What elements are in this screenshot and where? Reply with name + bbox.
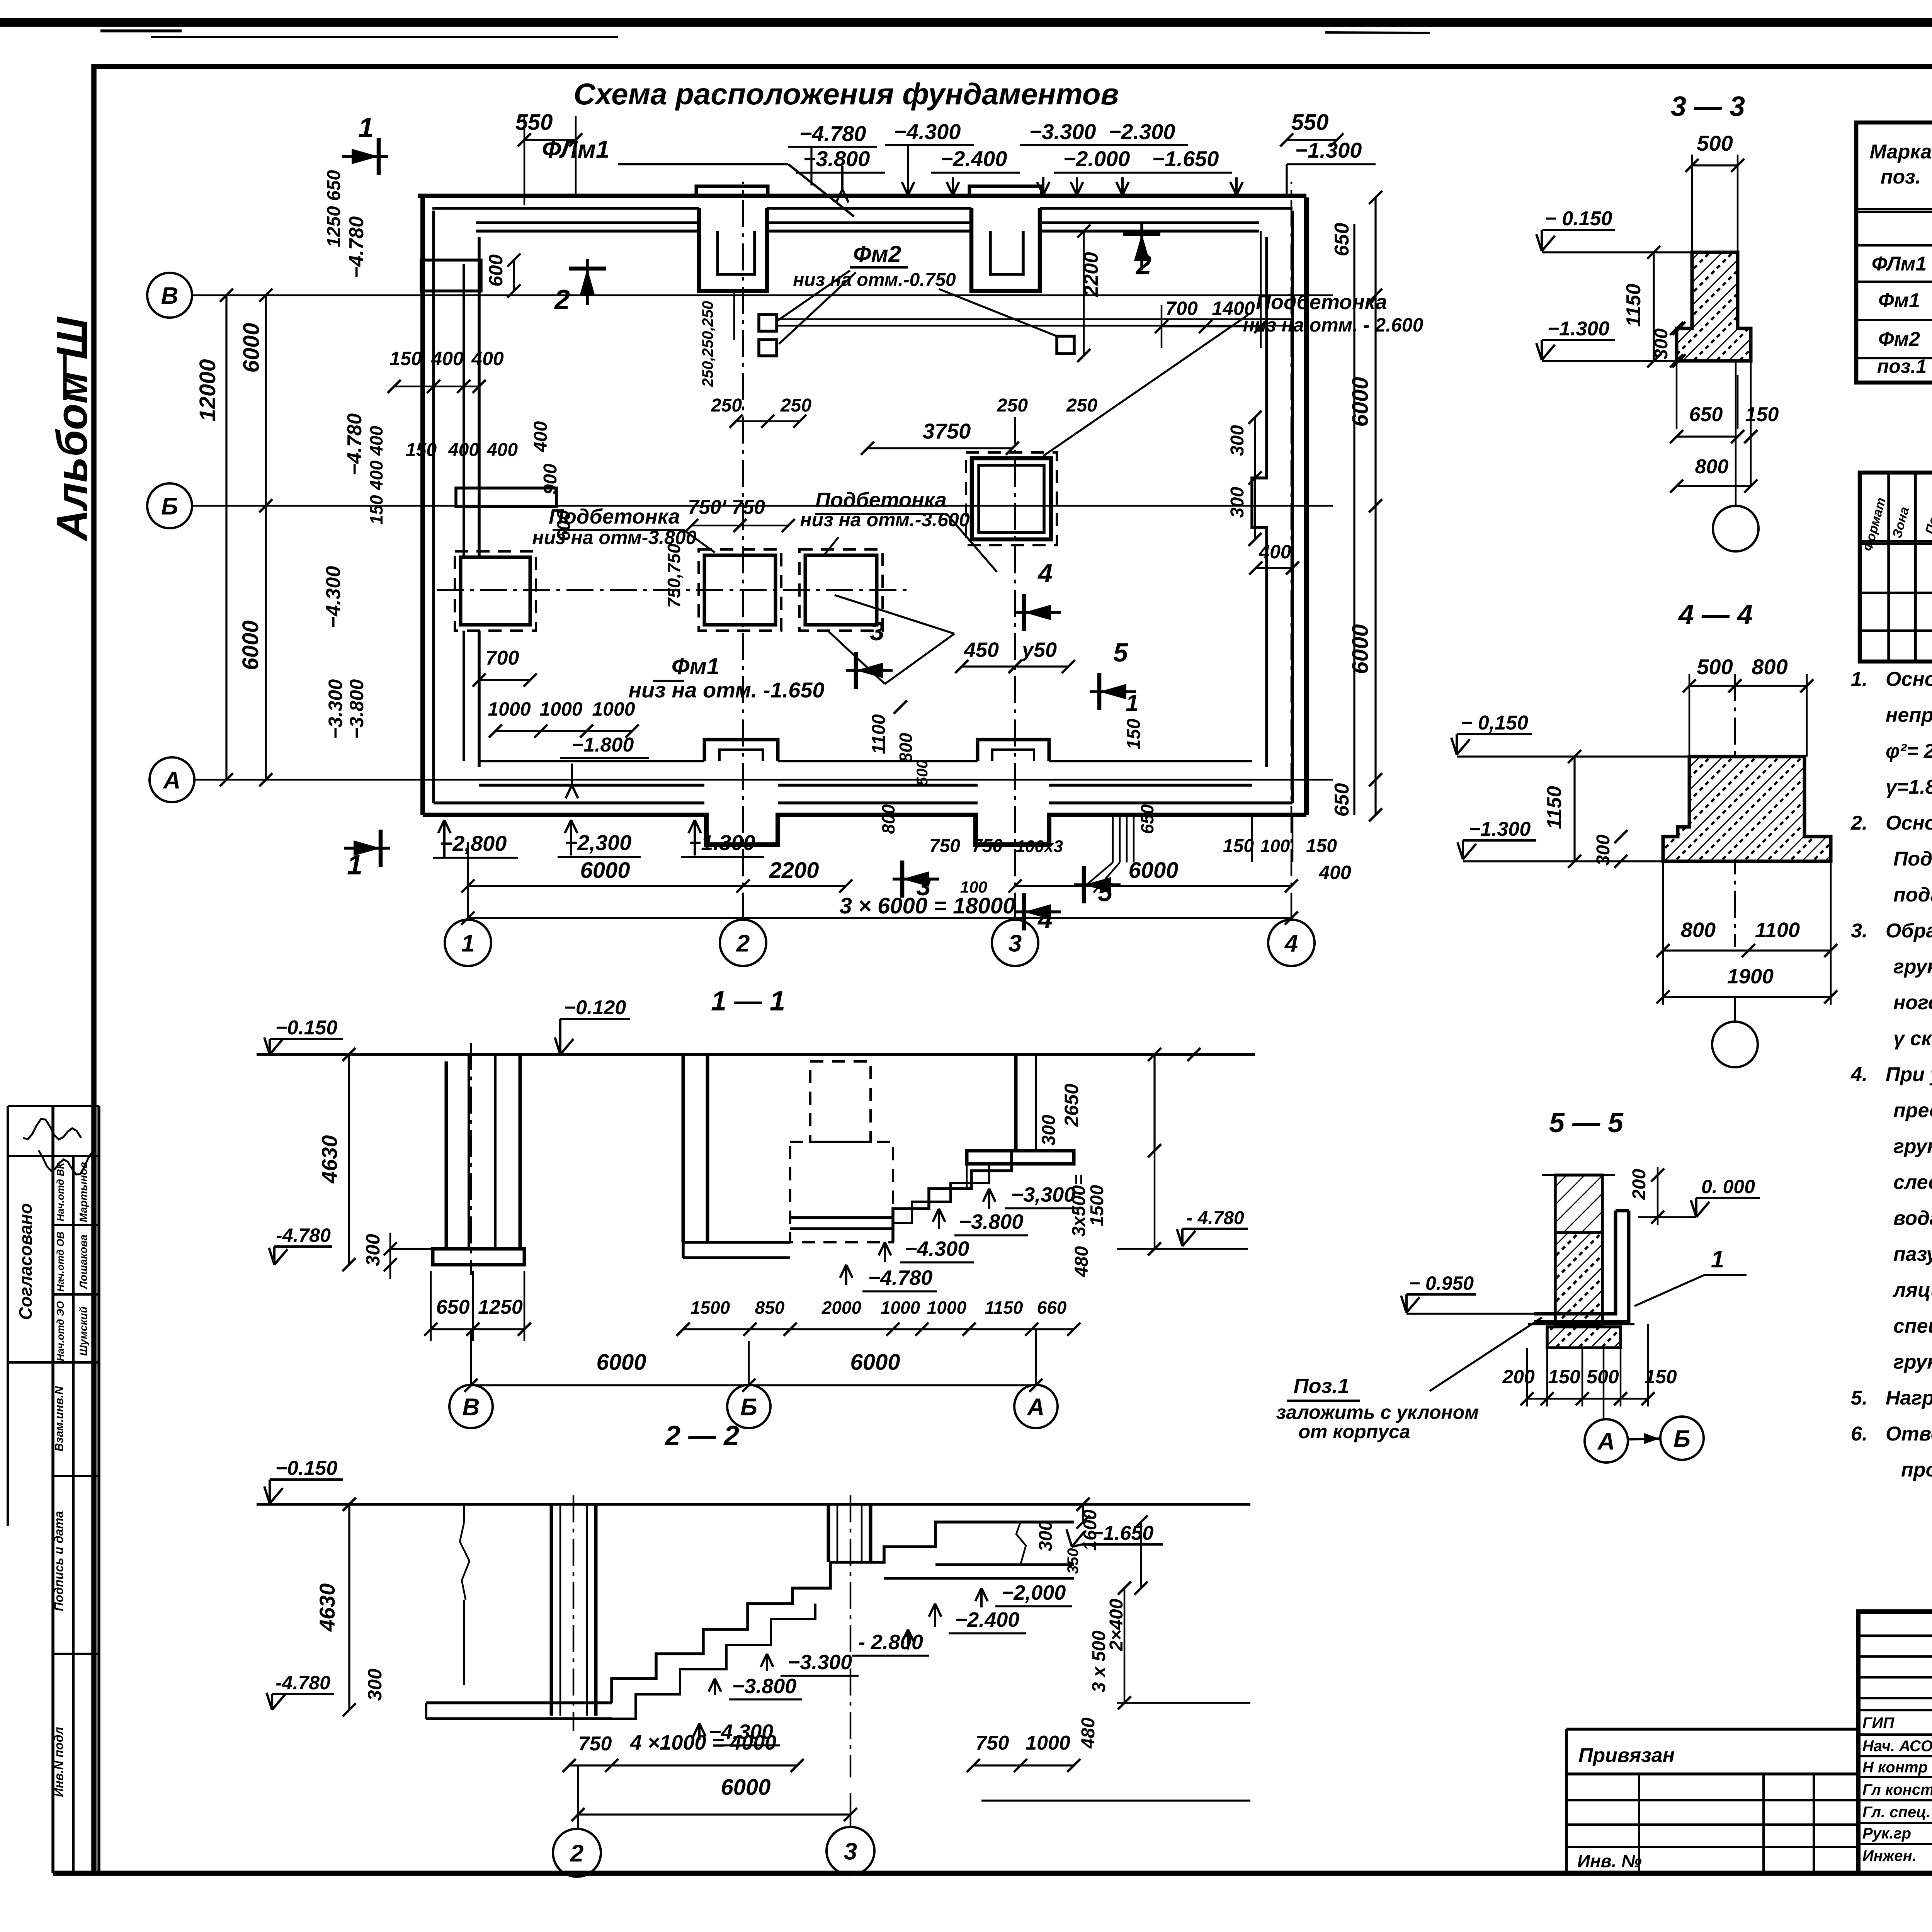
- svg-text:450: 450: [964, 638, 999, 662]
- svg-text:4: 4: [1037, 905, 1053, 934]
- section 3-3 hatched body: [1677, 252, 1751, 361]
- svg-text:ФЛм1: ФЛм1: [1872, 253, 1927, 275]
- svg-text:3х500=: 3х500=: [1069, 1174, 1089, 1237]
- svg-text:150: 150: [389, 348, 422, 369]
- svg-text:250: 250: [780, 395, 811, 416]
- svg-text:специальные добавки, понижаю: специальные добавки, понижающие температ…: [1893, 1315, 1932, 1337]
- axis 2 vertical dashdot: [742, 182, 744, 920]
- svg-text:3: 3: [916, 872, 931, 901]
- section 5-5 bottom ext lines: [1526, 1348, 1528, 1406]
- section 1-1 wall at B: [445, 1061, 448, 1249]
- svg-text:Гл конст: Гл конст: [1862, 1781, 1932, 1798]
- svg-text:ФЛм1: ФЛм1: [542, 135, 609, 163]
- svg-text:−1.300: −1.300: [1469, 818, 1531, 840]
- svg-text:Гл. спец.: Гл. спец.: [1862, 1804, 1930, 1821]
- section 2-2 squiggle break: [460, 1522, 469, 1600]
- svg-text:660: 660: [1037, 1298, 1067, 1318]
- column Fm1 right: [805, 555, 877, 625]
- plan left wall lines: [420, 197, 425, 815]
- svg-text:−4.780: −4.780: [799, 121, 866, 146]
- svg-text:1250 650: 1250 650: [324, 170, 344, 248]
- section 5-5 wall lower: [1555, 1233, 1602, 1324]
- svg-text:100: 100: [1260, 836, 1290, 856]
- svg-text:−2.400: −2.400: [940, 146, 1007, 171]
- svg-text:− 0.150: − 0.150: [1545, 207, 1612, 230]
- axis circle 3: [992, 920, 1038, 966]
- svg-text:низ на отм. - 2.600: низ на отм. - 2.600: [1243, 314, 1423, 336]
- svg-text:Основанием фундаментов служа: Основанием фундаментов служат грунты неп…: [1886, 668, 1932, 690]
- column centerline horizontal: [437, 589, 908, 591]
- svg-text:−2,800: −2,800: [440, 831, 507, 855]
- svg-text:Основание под фундаменты ФЛ: Основание под фундаменты ФЛм1, Фм2 утрам…: [1886, 812, 1932, 834]
- svg-text:Подбетонка: Подбетонка: [1256, 291, 1387, 314]
- svg-text:1000: 1000: [881, 1298, 920, 1318]
- svg-text:Фм2: Фм2: [1878, 328, 1920, 350]
- svg-text:−1.300: −1.300: [1295, 138, 1362, 162]
- svg-text:−0.120: −0.120: [564, 997, 626, 1019]
- section mark 5 bottom: [1074, 883, 1121, 886]
- svg-text:400: 400: [471, 348, 504, 369]
- svg-text:водами , своевременно произ: водами , своевременно производить засыпк…: [1893, 1207, 1932, 1230]
- svg-text:−3.800: −3.800: [346, 679, 367, 739]
- svg-text:200: 200: [1502, 1366, 1535, 1388]
- svg-text:грунтом без включения строит: грунтом без включения строительного мусо…: [1893, 956, 1932, 978]
- section 1-1 top line: [257, 1053, 1255, 1056]
- svg-text:750' 750: 750' 750: [688, 496, 765, 519]
- svg-text:3750: 3750: [923, 419, 971, 443]
- scan top edge line: [0, 18, 1932, 27]
- svg-text:φ²= 28°, сⁿ= 2кПа (0.02 кгс/с: φ²= 28°, сⁿ= 2кПа (0.02 кгс/см²) Е = 14.…: [1886, 740, 1932, 762]
- svg-text:γ скелета грунта ≳ 1.6 т/м³: γ скелета грунта ≳ 1.6 т/м³: [1893, 1027, 1932, 1050]
- svg-text:6000: 6000: [239, 323, 264, 372]
- svg-text:800: 800: [878, 804, 898, 834]
- svg-text:ляционными материалами, вв: ляционными материалами, вводить в грунт …: [1892, 1279, 1932, 1301]
- axis circle Б: [147, 483, 192, 528]
- axis circle A: [150, 757, 194, 802]
- svg-text:Подбетонка: Подбетонка: [815, 488, 947, 512]
- svg-text:250: 250: [997, 395, 1028, 416]
- svg-text:Подбетонка: Подбетонка: [549, 505, 680, 528]
- section 2-2 podgotovka strip: [426, 1701, 612, 1704]
- svg-text:Поз.1: Поз.1: [1294, 1374, 1349, 1398]
- svg-text:1000: 1000: [1026, 1732, 1070, 1754]
- column Fm1 at axis 1: [461, 557, 530, 625]
- svg-text:грунта: грунта: [1893, 1351, 1932, 1373]
- svg-text:150 400 400: 150 400 400: [366, 426, 386, 525]
- pривязан box: [1565, 1729, 1568, 1873]
- svg-text:проекта .: проекта .: [1901, 1459, 1932, 1481]
- svg-text:100: 100: [960, 878, 987, 896]
- fan lines 100x3: [1112, 815, 1114, 862]
- svg-text:поз.1: поз.1: [1877, 355, 1927, 377]
- plan bottom pilaster 1: [704, 740, 778, 761]
- svg-text:5: 5: [1098, 878, 1113, 907]
- pit at axis 3: [972, 458, 1051, 539]
- axis circle B: [147, 273, 192, 318]
- svg-text:4 — 4: 4 — 4: [1678, 599, 1753, 630]
- svg-text:800: 800: [1681, 918, 1716, 942]
- svg-text:непросадочные со следующими: непросадочные со следующими характеристи…: [1886, 704, 1932, 726]
- svg-text:700: 700: [1165, 298, 1198, 319]
- plan top wall inner lines: [476, 221, 699, 224]
- section 5-5 footing: [1547, 1327, 1621, 1348]
- svg-text:400: 400: [531, 421, 551, 452]
- svg-text:А: А: [1597, 1428, 1615, 1455]
- section mark 1 bottom-left: [344, 847, 390, 850]
- svg-text:Н контр: Н контр: [1862, 1759, 1928, 1776]
- svg-text:400: 400: [1318, 862, 1351, 883]
- svg-text:300: 300: [1651, 328, 1672, 359]
- svg-text:−4.300: −4.300: [905, 1237, 969, 1260]
- section mark 2 top: [586, 259, 589, 305]
- svg-text:−2.000: −2.000: [1063, 146, 1130, 171]
- section mark 2 right: [1140, 224, 1143, 270]
- svg-text:2: 2: [1135, 250, 1151, 281]
- svg-text:1: 1: [461, 930, 474, 957]
- svg-text:−2.400: −2.400: [955, 1608, 1020, 1631]
- section 5-5 wall top break: [1542, 1174, 1615, 1176]
- section 3-3 circle: [1735, 361, 1737, 506]
- title block name rows: [1858, 1733, 1932, 1736]
- svg-text:5: 5: [1113, 638, 1128, 667]
- plan bottom wall outer line: [423, 815, 1306, 845]
- svg-text:700: 700: [486, 647, 519, 669]
- svg-text:150: 150: [1223, 836, 1254, 856]
- svg-text:650: 650: [1689, 403, 1723, 426]
- svg-text:1400: 1400: [1212, 298, 1255, 319]
- svg-text:750: 750: [972, 836, 1003, 856]
- svg-text:низ на отм.-0.750: низ на отм.-0.750: [793, 270, 956, 290]
- svg-text:заложить с уклоном: заложить с уклоном: [1276, 1401, 1479, 1423]
- svg-text:1.: 1.: [1851, 668, 1867, 690]
- svg-text:1000: 1000: [488, 698, 531, 720]
- svg-text:12000: 12000: [195, 359, 220, 421]
- section mark 4 bottom: [1014, 910, 1061, 913]
- axis 4 vertical: [1291, 182, 1293, 920]
- axis line A: [194, 779, 1333, 781]
- plan right wall lines: [1304, 197, 1309, 815]
- section mark 5 interior: [1090, 690, 1136, 693]
- plan bottom dim row 2: [468, 917, 1291, 919]
- svg-text:150: 150: [1645, 1366, 1677, 1388]
- section 2-2 top line: [257, 1503, 1250, 1506]
- section 2-2 wall at axis 3: [827, 1504, 830, 1562]
- svg-text:При устройстве фундаментов: При устройстве фундаментов в зимний пери…: [1886, 1063, 1932, 1086]
- svg-text:3: 3: [844, 1838, 857, 1865]
- svg-text:3: 3: [1009, 930, 1022, 957]
- plan left wall footing at Б: [456, 488, 556, 507]
- svg-text:300: 300: [1593, 835, 1614, 866]
- svg-text:1250: 1250: [478, 1296, 523, 1318]
- svg-text:−1.300: −1.300: [1548, 318, 1610, 340]
- svg-text:750: 750: [578, 1733, 612, 1755]
- svg-text:−2.300: −2.300: [1109, 119, 1175, 144]
- svg-text:1100: 1100: [1755, 918, 1800, 942]
- svg-text:6000: 6000: [580, 858, 630, 883]
- svg-text:4.: 4.: [1850, 1063, 1867, 1086]
- thin lines from niche to Fm2 row: [733, 291, 735, 340]
- svg-text:650: 650: [1137, 804, 1157, 834]
- svg-text:поз.: поз.: [1881, 166, 1921, 188]
- column Fm1 middle: [704, 555, 776, 625]
- svg-text:ГИП: ГИП: [1862, 1714, 1895, 1731]
- section 1-1 wall at Б: [682, 1054, 685, 1242]
- svg-text:Б: Б: [1673, 1425, 1690, 1452]
- section 5-5 angle bracket: [1534, 1211, 1616, 1314]
- section 4-4 hatched body: [1663, 757, 1831, 861]
- svg-text:грунтов под подошвой фундам: грунтов под подошвой фундаментов основан…: [1893, 1135, 1932, 1158]
- svg-text:1: 1: [358, 112, 374, 143]
- svg-text:−3,300: −3,300: [1011, 1183, 1076, 1206]
- svg-text:750: 750: [976, 1732, 1009, 1754]
- svg-text:Нач. АСО: Нач. АСО: [1862, 1738, 1932, 1755]
- section 1-1 steps: [893, 1151, 1012, 1242]
- svg-text:−1.300: −1.300: [689, 830, 755, 855]
- plan niche at axis 3: [971, 208, 1040, 291]
- svg-text:Согласовано: Согласовано: [15, 1203, 36, 1320]
- svg-text:350: 350: [1065, 1548, 1082, 1574]
- svg-text:−0.150: −0.150: [276, 1017, 338, 1039]
- svg-text:Альбом Ш: Альбом Ш: [48, 316, 96, 542]
- svg-text:А: А: [1027, 1394, 1045, 1420]
- svg-text:6000: 6000: [850, 1350, 900, 1375]
- svg-text:Обратную засыпку пазух фун: Обратную засыпку пазух фундаментов произ…: [1886, 920, 1932, 942]
- svg-text:2200: 2200: [769, 858, 819, 883]
- svg-text:Б: Б: [161, 493, 178, 520]
- svg-text:5 — 5: 5 — 5: [1549, 1107, 1624, 1138]
- svg-text:Б: Б: [740, 1394, 757, 1420]
- svg-text:4630: 4630: [317, 1135, 342, 1184]
- svg-text:400: 400: [1259, 541, 1291, 563]
- svg-text:400: 400: [486, 440, 518, 460]
- svg-text:Взам.инв.N: Взам.инв.N: [53, 1386, 66, 1451]
- axis circle 1: [445, 920, 491, 966]
- svg-text:6000: 6000: [596, 1350, 646, 1375]
- svg-text:6000: 6000: [238, 620, 263, 670]
- svg-text:Отверстия для пропуска тр: Отверстия для пропуска труб ВК выполнять…: [1886, 1423, 1932, 1445]
- svg-text:1: 1: [1126, 690, 1138, 716]
- left strip outer line: [7, 1106, 9, 1526]
- section mark 3 top: [846, 669, 893, 672]
- svg-text:300: 300: [362, 1234, 384, 1266]
- plan bottom pilaster 2: [978, 740, 1049, 761]
- svg-text:−3.800: −3.800: [803, 146, 870, 171]
- svg-text:2: 2: [736, 930, 750, 957]
- svg-text:Фм1: Фм1: [1878, 289, 1920, 312]
- svg-text:А: А: [163, 767, 181, 794]
- title block frame: [1858, 1612, 1932, 1873]
- svg-text:750: 750: [929, 836, 960, 856]
- svg-text:2 — 2: 2 — 2: [664, 1420, 739, 1451]
- svg-text:850: 850: [755, 1298, 785, 1318]
- svg-text:1900: 1900: [1727, 965, 1774, 988]
- svg-text:−2,300: −2,300: [565, 830, 632, 855]
- svg-text:2650: 2650: [1061, 1083, 1082, 1127]
- section 1-1 footing at Б: [683, 1241, 790, 1244]
- svg-text:2: 2: [570, 1840, 583, 1867]
- svg-text:250: 250: [1066, 395, 1097, 416]
- inv table bottom left: [1566, 1799, 1858, 1801]
- svg-text:1150: 1150: [1543, 786, 1566, 829]
- svg-text:−4.300: −4.300: [322, 566, 345, 628]
- section 5-5 wall hatched upper: [1555, 1175, 1602, 1233]
- svg-text:6000: 6000: [1348, 624, 1373, 674]
- svg-text:− 0.950: − 0.950: [1409, 1272, 1474, 1294]
- svg-text:- 4.780: - 4.780: [1186, 1208, 1244, 1228]
- svg-text:1000: 1000: [539, 698, 582, 720]
- svg-text:−1.650: −1.650: [1092, 1522, 1154, 1544]
- axis circle 4: [1268, 920, 1315, 966]
- svg-text:300: 300: [364, 1668, 386, 1701]
- section 1-1 wall at A: [1014, 1054, 1018, 1151]
- svg-text:150: 150: [1306, 836, 1337, 856]
- left strip signatures: [23, 1119, 81, 1139]
- section 5-5 axis circles: [1603, 1348, 1605, 1418]
- svg-text:2000: 2000: [821, 1298, 862, 1318]
- right dim chain: [1353, 224, 1355, 815]
- title block upper rows: [1858, 1634, 1932, 1637]
- svg-text:Фм1: Фм1: [672, 653, 720, 679]
- svg-text:Схема расположения фундаментов: Схема расположения фундаментов: [573, 77, 1119, 111]
- svg-text:6000: 6000: [1128, 858, 1178, 883]
- section 1-1 footing at A: [967, 1151, 1074, 1164]
- svg-text:3 — 3: 3 — 3: [1671, 91, 1745, 122]
- svg-text:Под монолитные фундаменты Ф: Под монолитные фундаменты Фм1 предусмотр…: [1893, 848, 1932, 870]
- svg-text:2: 2: [554, 284, 570, 315]
- svg-text:500: 500: [914, 760, 931, 786]
- left dim chain verticals: [225, 295, 227, 780]
- svg-text:150: 150: [1124, 719, 1144, 750]
- svg-text:Фм2: Фм2: [853, 241, 901, 267]
- svg-text:−4.780: −4.780: [868, 1266, 933, 1289]
- spec table 1 frame: [1856, 122, 1932, 383]
- spec table 2 frame: [1860, 473, 1932, 662]
- svg-text:−1.800: −1.800: [572, 734, 634, 756]
- section mark 4 interior: [1014, 611, 1061, 614]
- svg-text:800: 800: [1752, 655, 1787, 679]
- svg-text:480: 480: [1078, 1718, 1099, 1749]
- svg-text:800: 800: [896, 733, 916, 762]
- svg-text:Шумский: Шумский: [77, 1306, 89, 1356]
- svg-text:400: 400: [431, 348, 464, 369]
- svg-text:1500: 1500: [1087, 1185, 1107, 1226]
- svg-text:пазух котлованов, утеплять: пазух котлованов, утеплять фундаменты те…: [1893, 1243, 1932, 1265]
- svg-text:250: 250: [711, 395, 742, 416]
- svg-text:1: 1: [347, 850, 362, 881]
- axis line Б: [192, 505, 1333, 507]
- svg-text:300: 300: [1036, 1520, 1056, 1551]
- plan left wall footing at B: [421, 260, 481, 291]
- svg-text:В: В: [161, 282, 179, 309]
- svg-text:200: 200: [1629, 1169, 1650, 1200]
- svg-text:4 ×1000 = 4000: 4 ×1000 = 4000: [630, 1731, 776, 1754]
- svg-text:Лошакова: Лошакова: [77, 1235, 89, 1289]
- svg-text:0. 000: 0. 000: [1701, 1176, 1755, 1197]
- svg-text:6000: 6000: [721, 1775, 770, 1800]
- plan bottom wall second line: [434, 801, 704, 804]
- svg-text:5.: 5.: [1851, 1387, 1867, 1409]
- svg-text:1 — 1: 1 — 1: [711, 986, 785, 1017]
- svg-text:300: 300: [1227, 487, 1248, 518]
- svg-text:100х3: 100х3: [1016, 837, 1063, 856]
- svg-text:3.: 3.: [1851, 920, 1867, 942]
- svg-text:Марка: Марка: [1870, 141, 1932, 163]
- axis line B: [192, 294, 1333, 296]
- svg-text:600: 600: [485, 254, 507, 287]
- svg-text:300: 300: [1227, 425, 1248, 456]
- svg-text:800: 800: [1695, 456, 1729, 478]
- svg-text:300: 300: [1039, 1115, 1059, 1146]
- svg-text:Привязан: Привязан: [1578, 1744, 1675, 1767]
- svg-text:-4.780: -4.780: [276, 1672, 330, 1694]
- svg-text:низ на отм.-3.600: низ на отм.-3.600: [800, 509, 969, 531]
- frame bottom under strip: [53, 1871, 94, 1876]
- svg-text:900: 900: [540, 464, 561, 495]
- section 1-1 axis circles: [449, 1385, 493, 1428]
- svg-text:550: 550: [515, 110, 553, 135]
- svg-text:γ=1.8²/м³ Грунтовые воды о: γ=1.8²/м³ Грунтовые воды отсутствуют.: [1886, 776, 1932, 798]
- svg-text:−0.150: −0.150: [276, 1457, 338, 1480]
- section 2-2 steps: [612, 1522, 1074, 1703]
- axis 3 vertical dashdot: [1014, 417, 1016, 920]
- svg-text:Мартынов: Мартынов: [77, 1162, 89, 1222]
- svg-text:−3.800: −3.800: [959, 1210, 1024, 1233]
- section mark 3 bottom: [893, 878, 939, 881]
- svg-text:Подпись и дата: Подпись и дата: [52, 1511, 66, 1611]
- plan top wall second line: [432, 207, 699, 210]
- svg-text:650: 650: [436, 1296, 470, 1318]
- svg-text:150: 150: [406, 440, 437, 460]
- svg-text:2.: 2.: [1850, 812, 1867, 834]
- plan top wall outer line: [418, 194, 1306, 198]
- svg-text:6.: 6.: [1851, 1423, 1867, 1445]
- plan bottom dim row 1: [468, 885, 743, 887]
- svg-text:−3.300: −3.300: [1029, 119, 1096, 144]
- section 4-4 circle: [1734, 997, 1736, 1022]
- svg-text:ного грунта с послойным: ного грунта с послойным трамбованием до …: [1893, 992, 1932, 1014]
- svg-text:−3.800: −3.800: [732, 1675, 797, 1698]
- svg-text:следует защищать от увлажне: следует защищать от увлажнения поверхнос…: [1893, 1171, 1932, 1194]
- section 1-1 dashed pit upper: [810, 1061, 871, 1142]
- section 2-2 squiggle at right ledge: [1016, 1522, 1026, 1565]
- svg-text:1150: 1150: [985, 1298, 1023, 1318]
- svg-text:−4.300: −4.300: [894, 119, 961, 144]
- svg-text:750,750: 750,750: [664, 543, 684, 608]
- plan niche at axis 2: [699, 208, 767, 291]
- svg-text:1100: 1100: [869, 714, 889, 754]
- svg-text:−1.650: −1.650: [1152, 146, 1219, 171]
- svg-text:480: 480: [1071, 1246, 1092, 1277]
- section 1-1 footing at B: [433, 1249, 524, 1265]
- plan bottom wall inner lines: [479, 784, 704, 787]
- svg-text:Рук.гр: Рук.гр: [1862, 1825, 1911, 1842]
- section 3-3 lower ext lines: [1676, 361, 1678, 429]
- svg-text:−2,000: −2,000: [1002, 1581, 1066, 1604]
- svg-text:Нач.отд ЭО: Нач.отд ЭО: [54, 1301, 66, 1361]
- svg-text:1150: 1150: [1622, 284, 1645, 327]
- svg-text:−4.780: −4.780: [344, 413, 366, 476]
- svg-text:150: 150: [1548, 1366, 1580, 1388]
- svg-text:3: 3: [870, 617, 884, 646]
- svg-text:4630: 4630: [315, 1583, 339, 1632]
- section 2-2 axis circles: [577, 1765, 579, 1828]
- svg-text:-4.780: -4.780: [276, 1225, 331, 1246]
- svg-text:− 0,150: − 0,150: [1461, 712, 1528, 734]
- svg-text:подготовки из бетона класса: подготовки из бетона класса В12.5.: [1893, 884, 1932, 906]
- svg-text:у50: у50: [1021, 638, 1057, 662]
- svg-text:4: 4: [1037, 559, 1053, 588]
- section 2-2 wall at axis 2: [550, 1504, 553, 1716]
